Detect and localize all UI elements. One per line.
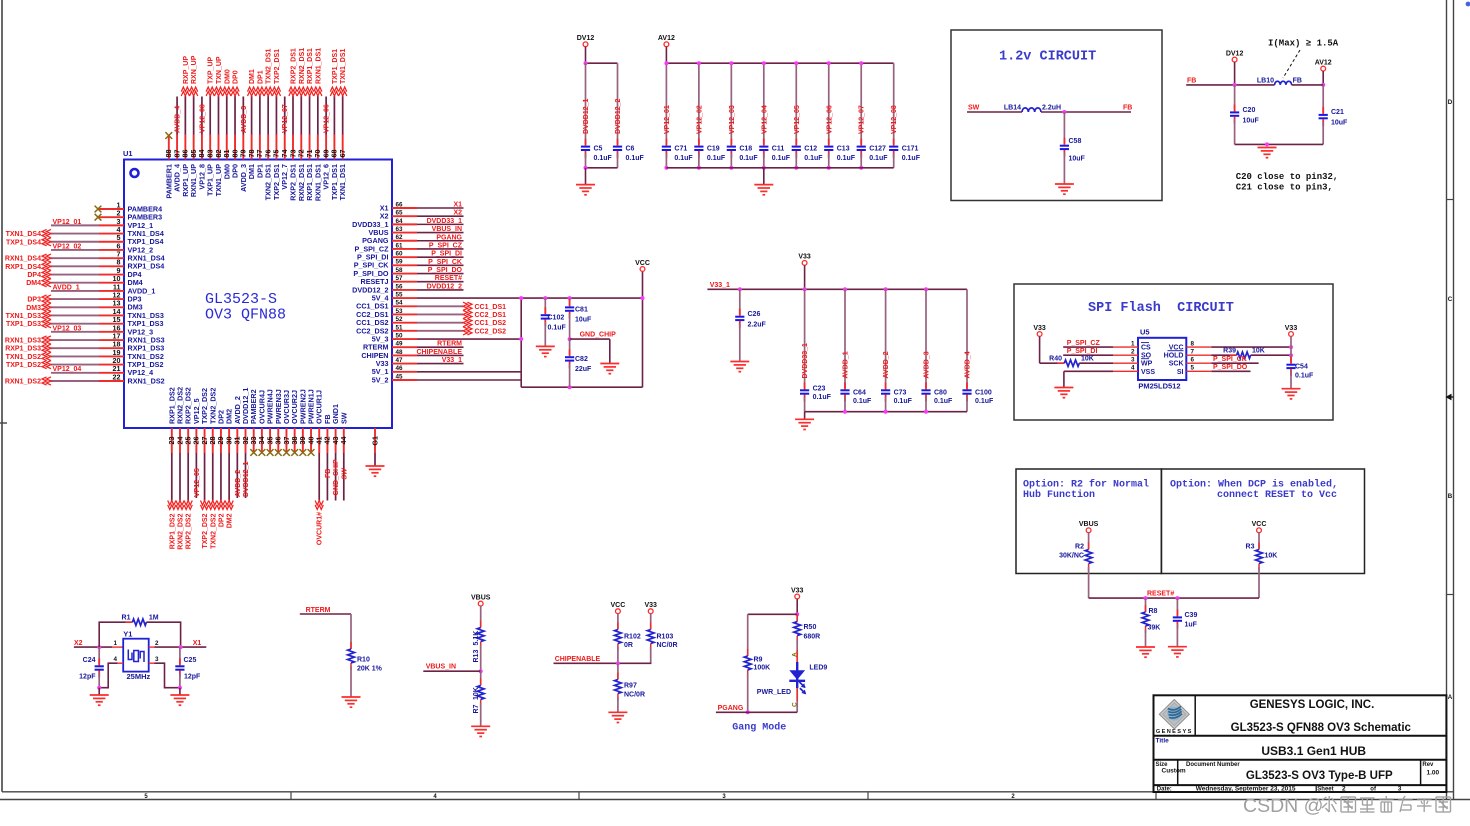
svg-text:C: C — [1448, 296, 1453, 303]
svg-text:R8: R8 — [1149, 608, 1158, 615]
svg-text:DM4: DM4 — [26, 280, 41, 287]
svg-text:10uF: 10uF — [575, 317, 592, 324]
svg-text:C81: C81 — [575, 307, 588, 314]
svg-text:PM25LD512: PM25LD512 — [1138, 382, 1180, 391]
svg-text:VP12_04: VP12_04 — [761, 105, 768, 134]
svg-text:61: 61 — [396, 242, 404, 249]
svg-text:3: 3 — [155, 656, 159, 663]
svg-text:VCC: VCC — [1252, 521, 1267, 528]
svg-text:65: 65 — [396, 210, 404, 217]
svg-text:RXN1_DS4: RXN1_DS4 — [5, 256, 41, 263]
svg-text:C127: C127 — [869, 146, 886, 153]
svg-text:47: 47 — [396, 357, 404, 364]
svg-text:VP12_06: VP12_06 — [826, 105, 833, 134]
svg-text:R39: R39 — [1223, 348, 1236, 355]
svg-text:DP1: DP1 — [257, 70, 264, 84]
svg-text:RXN2_DS2: RXN2_DS2 — [177, 513, 184, 549]
svg-text:2.2uF: 2.2uF — [748, 322, 767, 329]
svg-text:TXP1_DS1: TXP1_DS1 — [332, 49, 339, 84]
svg-text:R1: R1 — [122, 615, 131, 622]
svg-text:AVDD_1: AVDD_1 — [53, 284, 80, 291]
svg-text:TXN1_DS2: TXN1_DS2 — [6, 354, 42, 361]
svg-text:10K: 10K — [1265, 553, 1278, 560]
svg-text:AV12: AV12 — [1315, 59, 1332, 66]
svg-text:CSDN @: CSDN @ — [1243, 795, 1323, 817]
svg-text:VP12_05: VP12_05 — [794, 105, 801, 134]
svg-text:VP12_02: VP12_02 — [53, 243, 82, 250]
svg-text:0.1uF: 0.1uF — [869, 155, 888, 162]
svg-text:2: 2 — [1131, 348, 1135, 355]
svg-text:DVDD12_2: DVDD12_2 — [427, 283, 463, 290]
svg-text:RXP1_DS4: RXP1_DS4 — [5, 264, 41, 271]
svg-text:DM1: DM1 — [249, 69, 256, 84]
svg-text:CC2_DS2: CC2_DS2 — [475, 328, 507, 335]
svg-text:VP12_03: VP12_03 — [729, 105, 736, 134]
svg-text:V33: V33 — [1033, 325, 1046, 332]
svg-text:V33: V33 — [1285, 325, 1298, 332]
svg-text:P_SPI_CK: P_SPI_CK — [1213, 356, 1247, 363]
svg-text:CHIPENABLE: CHIPENABLE — [416, 349, 462, 356]
svg-text:RXN1_DS3: RXN1_DS3 — [5, 338, 41, 345]
svg-text:RXN1_DS2: RXN1_DS2 — [128, 376, 165, 385]
svg-text:P_SPI_DO: P_SPI_DO — [1213, 364, 1248, 371]
svg-text:DP0: DP0 — [233, 70, 240, 84]
svg-text:64: 64 — [396, 218, 404, 225]
svg-text:LED9: LED9 — [809, 665, 827, 672]
svg-text:Custom: Custom — [1162, 768, 1186, 775]
svg-text:0.1uF: 0.1uF — [975, 398, 994, 405]
svg-text:CHIPENABLE: CHIPENABLE — [555, 656, 601, 663]
svg-text:10uF: 10uF — [1069, 156, 1086, 163]
svg-text:V33_1: V33_1 — [710, 282, 730, 289]
svg-text:R3: R3 — [1246, 544, 1255, 551]
svg-text:2.2uH: 2.2uH — [1042, 105, 1061, 112]
svg-text:C82: C82 — [575, 356, 588, 363]
svg-text:RXP1_DS3: RXP1_DS3 — [5, 346, 41, 353]
svg-text:0.1uF: 0.1uF — [548, 325, 567, 332]
svg-text:TXN2_DS2: TXN2_DS2 — [210, 513, 217, 549]
svg-text:VBUS: VBUS — [1079, 521, 1099, 528]
svg-text:VP12_03: VP12_03 — [53, 325, 82, 332]
svg-text:A: A — [791, 652, 798, 657]
svg-text:TXP1_DS2: TXP1_DS2 — [6, 362, 41, 369]
svg-text:Document Number: Document Number — [1186, 762, 1240, 768]
svg-text:46: 46 — [396, 365, 404, 372]
svg-text:DV12: DV12 — [1226, 50, 1244, 57]
svg-text:G1: G1 — [373, 436, 380, 445]
svg-text:20K 1%: 20K 1% — [357, 666, 383, 673]
svg-text:RXP2_DS2: RXP2_DS2 — [186, 513, 193, 549]
svg-text:AVDD_2: AVDD_2 — [235, 470, 242, 497]
svg-text:66: 66 — [396, 201, 404, 208]
svg-text:AVDD_4: AVDD_4 — [175, 106, 182, 133]
svg-text:58: 58 — [396, 267, 404, 274]
svg-text:TXP2_DS2: TXP2_DS2 — [202, 513, 209, 548]
svg-text:C73: C73 — [894, 390, 907, 397]
svg-text:C13: C13 — [837, 146, 850, 153]
svg-text:63: 63 — [396, 226, 404, 233]
svg-text:GND_CHIP: GND_CHIP — [580, 331, 617, 338]
svg-text:C20: C20 — [1243, 107, 1256, 114]
svg-text:RESET#: RESET# — [435, 275, 462, 282]
svg-text:C102: C102 — [548, 315, 565, 322]
svg-text:VBUS: VBUS — [471, 594, 491, 601]
svg-text:5: 5 — [1191, 365, 1195, 372]
svg-text:67: 67 — [338, 150, 347, 158]
svg-text:0.1uF: 0.1uF — [804, 155, 823, 162]
svg-text:X1: X1 — [453, 202, 462, 209]
svg-text:C26: C26 — [748, 311, 761, 318]
svg-text:of: of — [1370, 787, 1377, 793]
svg-text:DP2: DP2 — [218, 513, 225, 527]
svg-text:0.1uF: 0.1uF — [902, 155, 921, 162]
svg-text:DM2: DM2 — [227, 513, 234, 528]
svg-text:R50: R50 — [804, 624, 817, 631]
svg-text:R103: R103 — [657, 633, 674, 640]
svg-text:Option: When DCP is enabled,: Option: When DCP is enabled, — [1170, 479, 1338, 491]
svg-text:B: B — [1448, 493, 1453, 500]
svg-text:7: 7 — [1191, 348, 1195, 355]
svg-text:VBUS_IN: VBUS_IN — [432, 226, 462, 233]
svg-text:C24: C24 — [83, 657, 96, 664]
svg-text:GL3523-S: GL3523-S — [205, 291, 277, 308]
svg-text:LB10: LB10 — [1257, 77, 1274, 84]
svg-text:C11: C11 — [772, 146, 785, 153]
svg-text:52: 52 — [396, 316, 404, 323]
svg-text:TXP2_DS1: TXP2_DS1 — [274, 49, 281, 84]
svg-text:2: 2 — [155, 640, 159, 647]
svg-text:TXN_UP: TXN_UP — [216, 56, 223, 84]
svg-text:P_SPI_DO: P_SPI_DO — [428, 267, 463, 274]
svg-text:25MHz: 25MHz — [127, 672, 151, 681]
svg-text:4: 4 — [113, 656, 117, 663]
svg-text:10K: 10K — [1252, 348, 1265, 355]
svg-text:I(Max) ≥ 1.5A: I(Max) ≥ 1.5A — [1268, 39, 1339, 49]
svg-text:SI: SI — [1177, 369, 1184, 376]
svg-text:SW: SW — [968, 105, 980, 112]
svg-text:DM0: DM0 — [224, 69, 231, 84]
svg-text:22uF: 22uF — [575, 366, 592, 373]
svg-text:RTERM: RTERM — [306, 607, 331, 614]
svg-text:TXP_UP: TXP_UP — [208, 56, 215, 84]
svg-text:3: 3 — [1131, 356, 1135, 363]
svg-text:DVDD33_1: DVDD33_1 — [802, 343, 809, 379]
svg-text:50: 50 — [396, 332, 404, 339]
svg-text:TXN1_DS3: TXN1_DS3 — [6, 313, 42, 320]
svg-text:10uF: 10uF — [1243, 118, 1260, 125]
svg-text:DP3: DP3 — [27, 297, 41, 304]
svg-text:0R: 0R — [624, 642, 633, 649]
svg-text:Sheet: Sheet — [1317, 787, 1333, 793]
svg-text:Date:: Date: — [1157, 787, 1172, 793]
svg-text:8: 8 — [1191, 340, 1195, 347]
svg-text:PGANG: PGANG — [718, 705, 744, 712]
svg-text:53: 53 — [396, 308, 404, 315]
svg-text:R102: R102 — [624, 633, 641, 640]
svg-text:RXN2_DS1: RXN2_DS1 — [299, 48, 306, 84]
svg-text:Gang Mode: Gang Mode — [732, 722, 786, 734]
svg-text:RXN1_DS1: RXN1_DS1 — [315, 48, 322, 84]
svg-text:C18: C18 — [739, 146, 752, 153]
svg-text:51: 51 — [396, 324, 404, 331]
svg-text:0.1uF: 0.1uF — [853, 398, 872, 405]
svg-text:0.1uF: 0.1uF — [594, 155, 613, 162]
svg-text:VCC: VCC — [635, 260, 650, 267]
svg-text:TXN1_DS1: TXN1_DS1 — [340, 48, 347, 84]
svg-text:6: 6 — [1191, 356, 1195, 363]
svg-text:AVDD_3: AVDD_3 — [924, 351, 931, 378]
svg-text:P_SPI_DI: P_SPI_DI — [1067, 348, 1098, 355]
svg-text:V33_1: V33_1 — [442, 357, 462, 364]
svg-text:1.00: 1.00 — [1427, 769, 1440, 776]
svg-text:0.1uF: 0.1uF — [837, 155, 856, 162]
svg-text:1: 1 — [113, 640, 117, 647]
svg-text:TXP1_DS3: TXP1_DS3 — [6, 321, 41, 328]
svg-text:0.1uF: 0.1uF — [739, 155, 758, 162]
svg-text:100K: 100K — [754, 665, 771, 672]
svg-text:CC2_DS1: CC2_DS1 — [475, 312, 507, 319]
svg-text:0.1uF: 0.1uF — [934, 398, 953, 405]
svg-text:C80: C80 — [934, 390, 947, 397]
svg-text:V33: V33 — [644, 602, 657, 609]
svg-text:CS: CS — [1141, 345, 1151, 352]
svg-text:P_SPI_CZ: P_SPI_CZ — [429, 242, 463, 249]
svg-text:PWR_LED: PWR_LED — [757, 689, 791, 696]
svg-text:PGANG: PGANG — [436, 234, 462, 241]
svg-text:C23: C23 — [813, 386, 826, 393]
svg-text:VCC: VCC — [611, 602, 626, 609]
svg-text:R13: R13 — [473, 650, 480, 663]
svg-text:C6: C6 — [626, 146, 635, 153]
svg-text:GND_CHIP: GND_CHIP — [333, 459, 340, 496]
svg-text:V33: V33 — [798, 254, 811, 261]
svg-text:5V_2: 5V_2 — [372, 375, 389, 384]
svg-text:C64: C64 — [853, 390, 866, 397]
svg-text:U1: U1 — [123, 149, 133, 158]
svg-text:GL3523-S QFN88 OV3 Schematic: GL3523-S QFN88 OV3 Schematic — [1231, 722, 1412, 734]
svg-text:10K: 10K — [1081, 356, 1094, 363]
svg-text:VSS: VSS — [1141, 369, 1155, 376]
svg-text:3: 3 — [1398, 786, 1402, 793]
svg-text:RXN_UP: RXN_UP — [191, 55, 198, 84]
svg-text:VP12_02: VP12_02 — [696, 105, 703, 134]
svg-text:SPI Flash CIRCUIT: SPI Flash CIRCUIT — [1088, 301, 1234, 316]
svg-text:P_SPI_CK: P_SPI_CK — [428, 259, 462, 266]
svg-text:DP4: DP4 — [27, 272, 41, 279]
svg-text:10K: 10K — [473, 687, 480, 700]
svg-text:0.1uF: 0.1uF — [1295, 373, 1314, 380]
svg-text:5.1K: 5.1K — [473, 631, 480, 646]
svg-text:USB3.1 Gen1 HUB: USB3.1 Gen1 HUB — [1261, 744, 1366, 758]
svg-text:RXP2_DS1: RXP2_DS1 — [291, 48, 298, 84]
svg-text:56: 56 — [396, 283, 404, 290]
svg-text:DVDD12_1: DVDD12_1 — [243, 461, 250, 497]
svg-text:R9: R9 — [754, 657, 763, 664]
svg-text:AVDD_3: AVDD_3 — [241, 106, 248, 133]
svg-text:SCK: SCK — [1169, 361, 1184, 368]
svg-text:VP12_05: VP12_05 — [194, 468, 201, 497]
svg-text:AVDD_4: AVDD_4 — [965, 351, 972, 378]
svg-text:680R: 680R — [804, 633, 821, 640]
svg-text:P_SPI_CZ: P_SPI_CZ — [1067, 340, 1101, 347]
svg-text:Option: R2 for Normal: Option: R2 for Normal — [1023, 479, 1149, 491]
svg-text:VBUS_IN: VBUS_IN — [426, 664, 456, 671]
svg-text:R40: R40 — [1049, 356, 1062, 363]
svg-text:RXP_UP: RXP_UP — [183, 56, 190, 84]
svg-text:49: 49 — [396, 341, 404, 348]
svg-text:0.1uF: 0.1uF — [626, 155, 645, 162]
svg-text:NC/0R: NC/0R — [624, 692, 645, 699]
svg-text:VP12_04: VP12_04 — [53, 366, 82, 373]
svg-text:Title: Title — [1156, 738, 1170, 745]
svg-text:VP12_08: VP12_08 — [199, 104, 206, 133]
svg-text:DVDD12_1: DVDD12_1 — [583, 98, 590, 134]
svg-text:TXP1_DS4: TXP1_DS4 — [6, 239, 41, 246]
svg-text:0.1uF: 0.1uF — [894, 398, 913, 405]
svg-text:1uF: 1uF — [1185, 622, 1198, 629]
svg-text:C20 close to pin32,: C20 close to pin32, — [1236, 172, 1339, 182]
svg-text:NC/0R: NC/0R — [657, 642, 678, 649]
svg-text:FB: FB — [1187, 77, 1196, 84]
svg-text:45: 45 — [396, 373, 404, 380]
svg-text:1M: 1M — [149, 615, 159, 622]
svg-text:22: 22 — [113, 372, 121, 381]
svg-text:0.1uF: 0.1uF — [707, 155, 726, 162]
svg-text:FB: FB — [325, 469, 332, 478]
svg-text:HOLD: HOLD — [1164, 353, 1184, 360]
svg-text:54: 54 — [396, 300, 404, 307]
svg-text:Hub Function: Hub Function — [1023, 489, 1095, 501]
svg-text:R7: R7 — [473, 704, 480, 713]
svg-text:A: A — [1448, 694, 1453, 701]
svg-text:C58: C58 — [1069, 138, 1082, 145]
svg-text:59: 59 — [396, 259, 404, 266]
svg-text:57: 57 — [396, 275, 404, 282]
svg-text:VP12_01: VP12_01 — [53, 219, 82, 226]
svg-text:62: 62 — [396, 234, 404, 241]
svg-text:VP12_08: VP12_08 — [891, 105, 898, 134]
svg-text:AVDD_1: AVDD_1 — [843, 351, 850, 378]
svg-text:12pF: 12pF — [184, 674, 201, 681]
svg-text:SW: SW — [339, 412, 348, 424]
svg-text:C100: C100 — [975, 390, 992, 397]
svg-text:DV12: DV12 — [577, 35, 595, 42]
svg-text:R2: R2 — [1075, 544, 1084, 551]
svg-text:C21 close to pin3,: C21 close to pin3, — [1236, 183, 1333, 193]
svg-text:U5: U5 — [1140, 328, 1150, 337]
svg-text:60: 60 — [396, 251, 404, 258]
svg-text:C21: C21 — [1331, 109, 1344, 116]
svg-text:VP12_06: VP12_06 — [324, 104, 331, 133]
svg-text:V33: V33 — [791, 587, 804, 594]
svg-text:LB14: LB14 — [1004, 105, 1021, 112]
svg-text:1.2v CIRCUIT: 1.2v CIRCUIT — [999, 50, 1096, 65]
svg-text:L O G I C: L O G I C — [1164, 733, 1184, 737]
svg-text:C71: C71 — [674, 146, 687, 153]
svg-text:P_SPI_DI: P_SPI_DI — [431, 251, 462, 258]
svg-text:X1: X1 — [193, 640, 202, 647]
svg-text:CC1_DS2: CC1_DS2 — [475, 320, 507, 327]
svg-text:Wednesday, September 23, 2015: Wednesday, September 23, 2015 — [1196, 786, 1296, 793]
svg-text:44: 44 — [339, 437, 348, 445]
svg-text:RESET#: RESET# — [1147, 591, 1174, 598]
svg-text:TXN1_DS1: TXN1_DS1 — [338, 164, 347, 200]
svg-text:DVDD12_2: DVDD12_2 — [615, 98, 622, 134]
svg-text:R10: R10 — [357, 657, 370, 664]
svg-text:TXN2_DS1: TXN2_DS1 — [266, 48, 273, 84]
svg-text:AVDD_2: AVDD_2 — [883, 351, 890, 378]
svg-text:Y1: Y1 — [123, 630, 132, 639]
svg-text:C5: C5 — [594, 146, 603, 153]
svg-text:WP: WP — [1141, 361, 1153, 368]
svg-text:GENESYS LOGIC, INC.: GENESYS LOGIC, INC. — [1250, 699, 1375, 711]
svg-text:Rev: Rev — [1422, 762, 1434, 768]
svg-text:C25: C25 — [184, 657, 197, 664]
svg-text:FB: FB — [1123, 105, 1132, 112]
svg-text:30K/NC: 30K/NC — [1059, 553, 1084, 560]
svg-text:2: 2 — [1342, 786, 1346, 793]
svg-text:0.1uF: 0.1uF — [674, 155, 693, 162]
svg-text:0.1uF: 0.1uF — [772, 155, 791, 162]
svg-text:C39: C39 — [1185, 612, 1198, 619]
svg-text:R97: R97 — [624, 683, 637, 690]
svg-text:C12: C12 — [804, 146, 817, 153]
svg-text:GL3523-S OV3 Type-B UFP: GL3523-S OV3 Type-B UFP — [1246, 770, 1393, 782]
svg-text:10uF: 10uF — [1331, 120, 1348, 127]
svg-text:TXN1_DS4: TXN1_DS4 — [6, 231, 42, 238]
svg-text:CC1_DS1: CC1_DS1 — [475, 304, 507, 311]
svg-text:C54: C54 — [1295, 364, 1308, 371]
svg-text:X2: X2 — [74, 640, 83, 647]
svg-text:39K: 39K — [1148, 625, 1161, 632]
svg-text:AV12: AV12 — [658, 35, 675, 42]
svg-text:connect RESET to Vcc: connect RESET to Vcc — [1217, 490, 1337, 501]
svg-text:VP12_07: VP12_07 — [282, 104, 289, 133]
svg-text:OVCUR1#: OVCUR1# — [317, 512, 324, 545]
svg-text:C19: C19 — [707, 146, 720, 153]
svg-text:55: 55 — [396, 291, 404, 298]
svg-text:12pF: 12pF — [79, 674, 96, 681]
svg-text:VP12_07: VP12_07 — [859, 105, 866, 134]
svg-text:1: 1 — [1131, 340, 1135, 347]
svg-text:DM3: DM3 — [26, 305, 41, 312]
svg-text:4: 4 — [1131, 365, 1135, 372]
svg-text:0.1uF: 0.1uF — [813, 394, 832, 401]
svg-text:RXN1_DS2: RXN1_DS2 — [5, 378, 41, 385]
svg-text:FB: FB — [1293, 77, 1302, 84]
svg-text:C171: C171 — [902, 146, 919, 153]
svg-text:RXP1_DS2: RXP1_DS2 — [169, 513, 176, 549]
svg-text:DVDD33_1: DVDD33_1 — [427, 218, 463, 225]
svg-text:X2: X2 — [453, 210, 462, 217]
svg-text:RXP1_DS1: RXP1_DS1 — [307, 48, 314, 84]
svg-text:VP12_01: VP12_01 — [664, 105, 671, 134]
svg-text:48: 48 — [396, 349, 404, 356]
svg-text:SW: SW — [341, 467, 348, 480]
svg-text:D: D — [1448, 99, 1453, 106]
svg-text:OV3 QFN88: OV3 QFN88 — [205, 307, 286, 324]
svg-text:RTERM: RTERM — [437, 341, 462, 348]
